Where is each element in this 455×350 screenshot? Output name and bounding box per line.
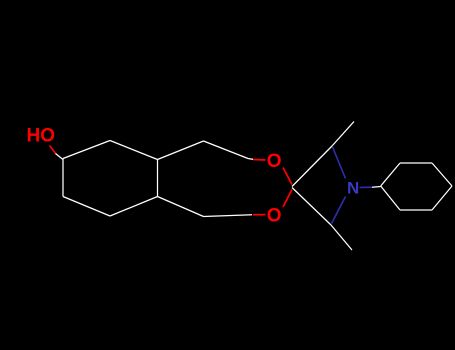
bond T-N (blue)	[333, 147, 346, 179]
bond B2-Obot white part (near horizontal)	[204, 215, 253, 217]
bond R1-Otop white half	[248, 159, 254, 160]
bond HO white half to V1	[56, 154, 64, 160]
spiro carbon C branches	[292, 122, 354, 251]
bond V1-A1	[63, 141, 110, 159]
methyl stub on T	[332, 122, 354, 147]
bond N-hexagon white half	[372, 186, 381, 189]
bond BR-BL	[400, 209, 432, 211]
bond Otop to spiro C (red)	[283, 168, 292, 185]
svg-text:O: O	[267, 206, 282, 227]
bond TR-R	[432, 163, 452, 186]
bond N to right hexagon (blue)	[360, 186, 373, 188]
bond V3-A2	[158, 141, 204, 160]
methyl stub on B	[331, 225, 352, 250]
bond R-BR	[432, 186, 452, 210]
bond V4-B1	[110, 197, 158, 217]
bond BL-L	[381, 186, 400, 210]
bond C-T	[292, 146, 332, 187]
bond V2-V1 (left vertical edge)	[62, 159, 64, 197]
bond V4-B2	[158, 197, 204, 217]
bond Obot to spiro C (red)	[283, 190, 292, 208]
bond V3-V4 (shared vertical edge)	[157, 160, 159, 197]
ring A (left cyclohexane)	[63, 141, 158, 217]
bond L-TL	[381, 163, 400, 186]
ring B (middle ring to dioxocine)	[158, 141, 255, 217]
bond TL-TR	[400, 162, 432, 164]
right cyclohexyl ring	[381, 163, 452, 210]
bond C-B	[292, 188, 331, 226]
bond B-N (blue)	[332, 197, 346, 224]
bond A2-R1	[204, 141, 249, 159]
svg-text:N: N	[347, 178, 359, 197]
svg-text:HO: HO	[27, 126, 56, 147]
bond HO to ring vertex V1 (C-O bond, red)	[50, 146, 57, 155]
bond A1-V3	[110, 141, 158, 160]
svg-text:O: O	[267, 151, 282, 172]
bond B1-V2	[63, 197, 110, 217]
bond Obot left red half	[253, 214, 266, 216]
bond Otop left red half	[253, 159, 266, 162]
